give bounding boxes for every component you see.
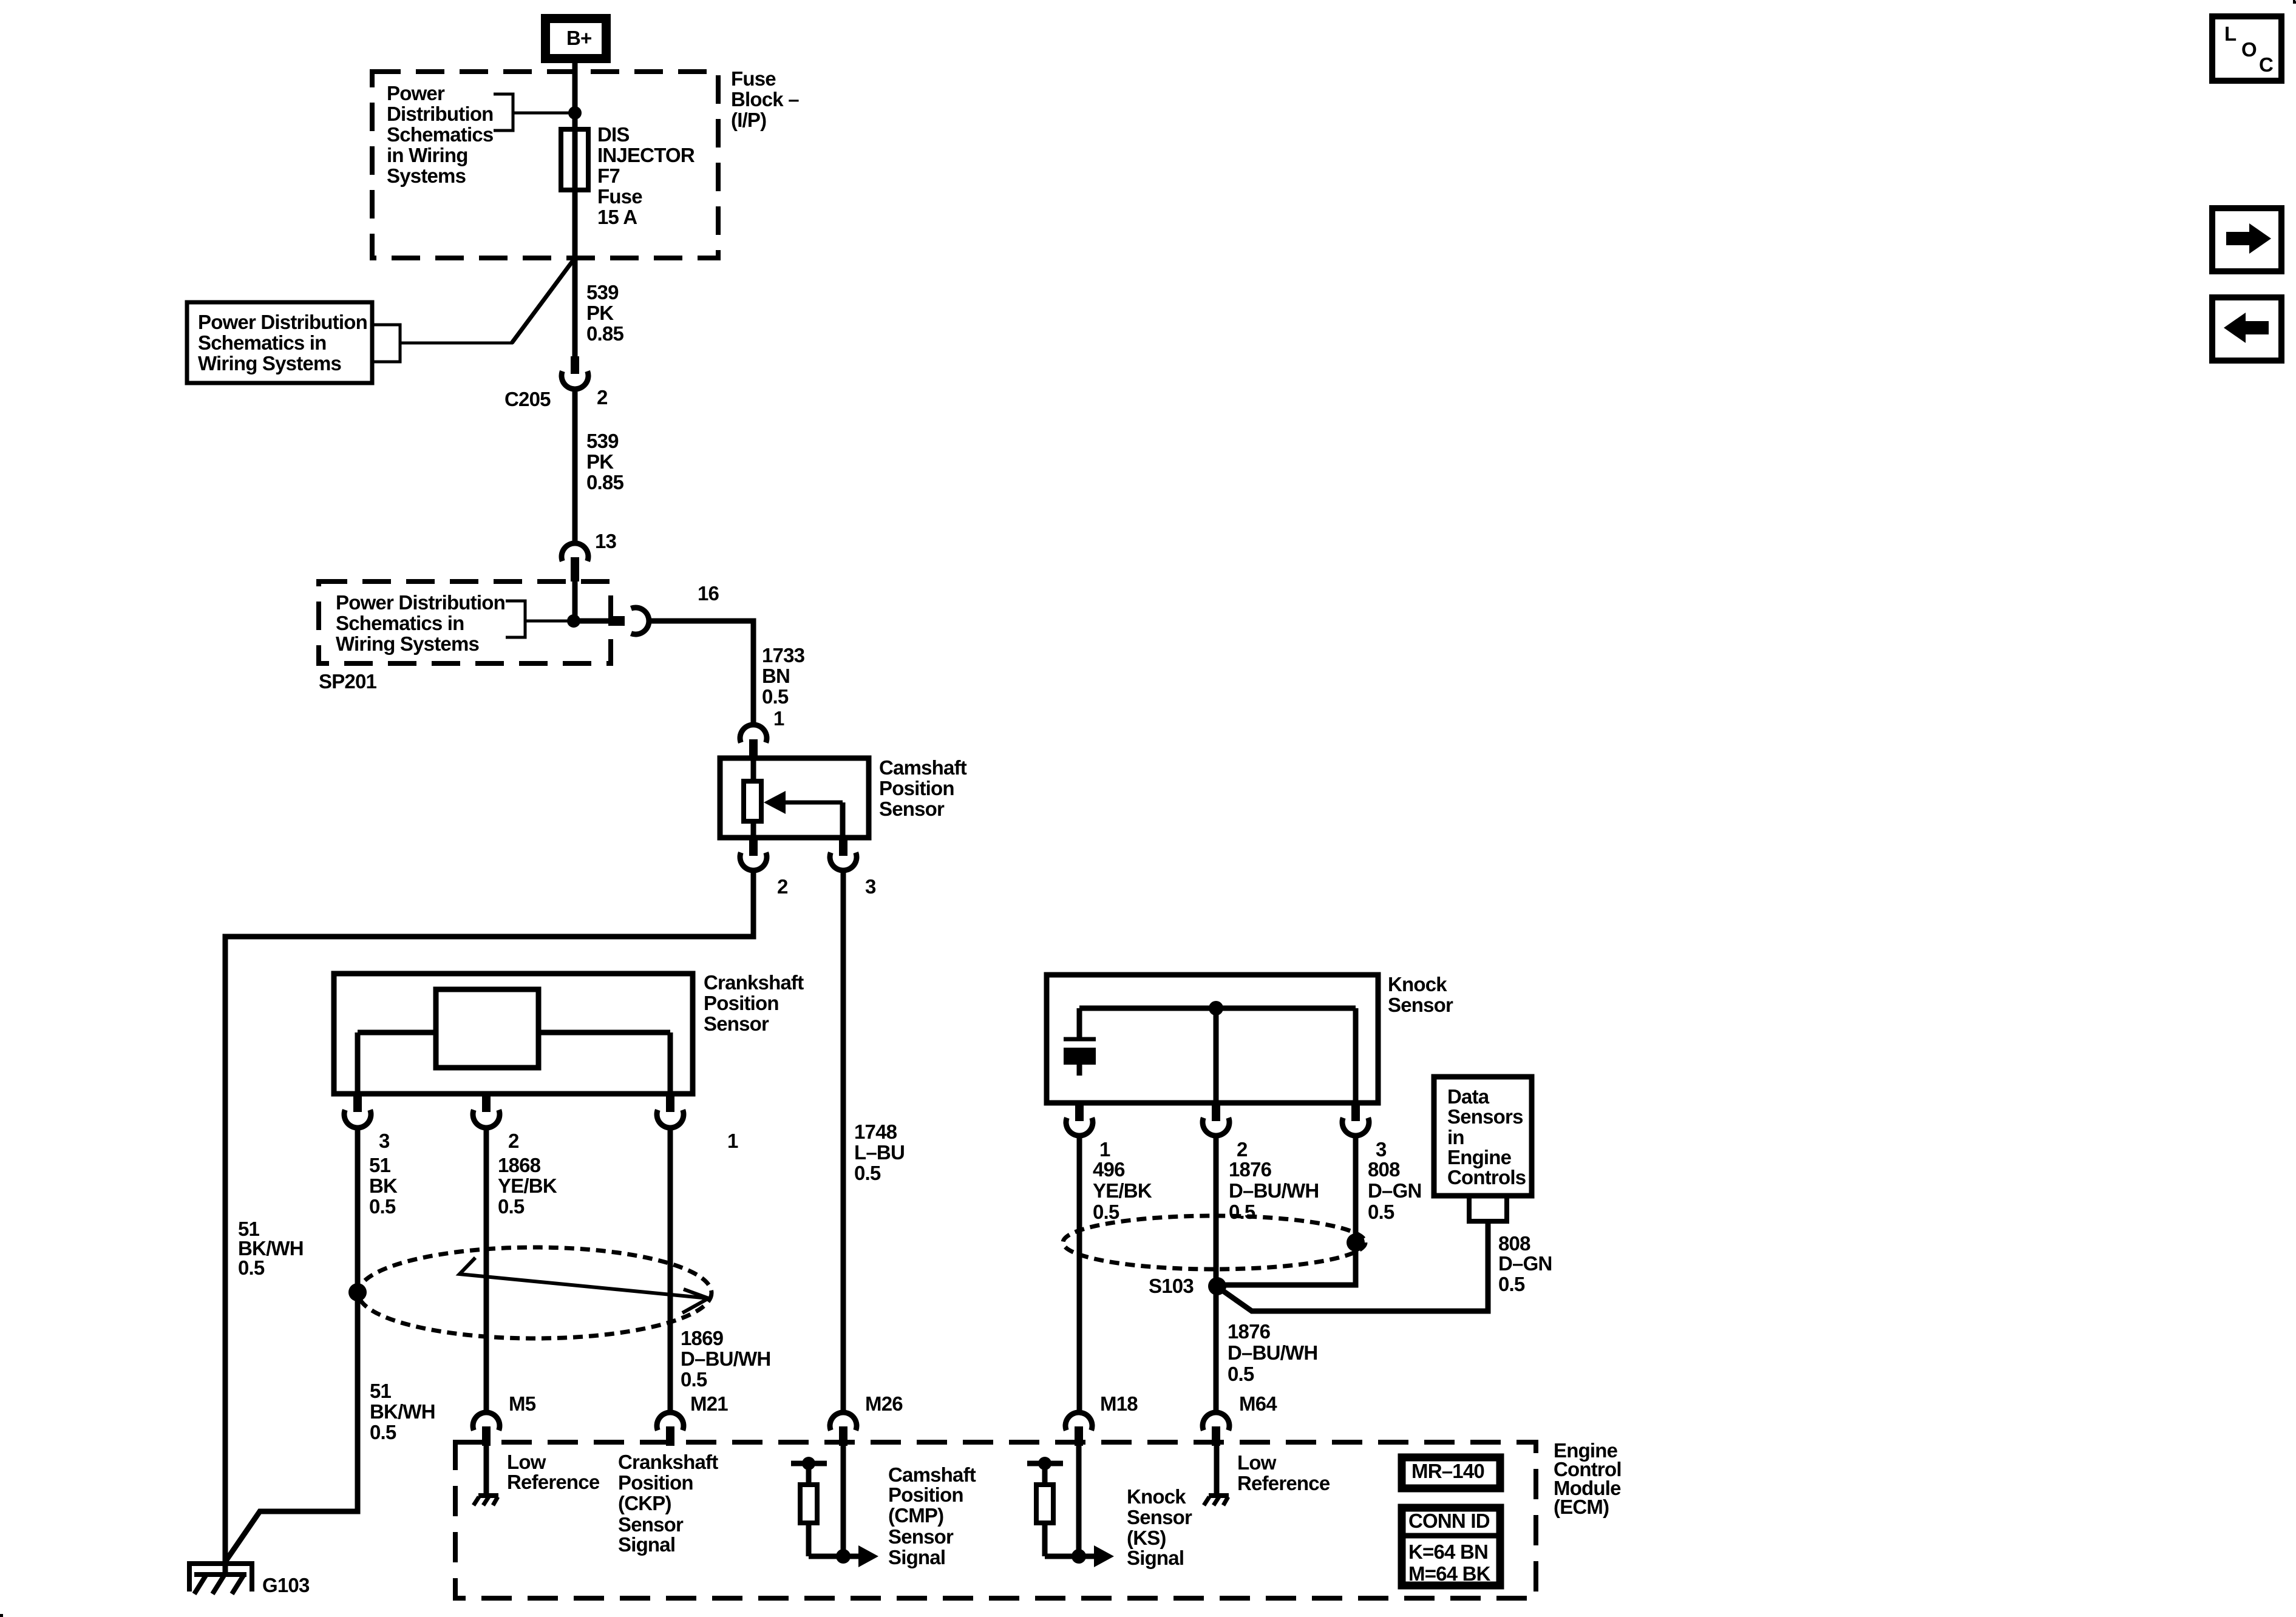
svg-text:Low: Low (1237, 1451, 1277, 1474)
connector 16 out of SP201 (608, 608, 649, 634)
connector 13 into SP201 (562, 543, 588, 581)
svg-text:1: 1 (773, 707, 784, 730)
wire M5 to internal ground (484, 1446, 489, 1496)
wire label 1733 BN 0.5 (762, 644, 805, 708)
ground G103 (189, 1564, 252, 1594)
junction node CMP rail (802, 1457, 815, 1470)
wire label 808 D-GN 0.5 (left) (1368, 1158, 1422, 1223)
svg-text:0.5: 0.5 (1368, 1201, 1394, 1223)
svg-text:Distribution: Distribution (387, 103, 494, 125)
svg-text:B+: B+ (566, 27, 592, 49)
label Camshaft Position Sensor (879, 756, 967, 820)
svg-text:PK: PK (586, 450, 614, 473)
svg-text:M64: M64 (1239, 1392, 1277, 1415)
connector pin 3 camshaft sensor (830, 838, 857, 870)
wire 496 YE/BK knock pin 1 to M18 (1077, 1136, 1082, 1413)
svg-text:496: 496 (1093, 1158, 1125, 1181)
svg-text:0.85: 0.85 (586, 471, 623, 493)
svg-text:Sensor: Sensor (704, 1012, 769, 1035)
KS input pull-up rail (1027, 1461, 1063, 1466)
svg-text:L: L (2224, 22, 2237, 45)
connector pin 3 knock sensor (1342, 1103, 1369, 1136)
bracket inside SP201 (506, 601, 574, 637)
label Power Distribution Schematics in Wiring Systems (fuse block) (387, 82, 494, 187)
wire label 1876 D-BU/WH 0.5 (upper) (1229, 1158, 1319, 1223)
svg-text:1876: 1876 (1229, 1158, 1272, 1181)
svg-text:YE/BK: YE/BK (498, 1175, 557, 1197)
connector M64 at ECM (1203, 1412, 1229, 1446)
junction node CMP signal (836, 1549, 851, 1564)
twisted pair ellipse (knock) (1063, 1216, 1365, 1269)
wire 1869 D-BU/WH crankshaft pin 1 to M21 (668, 1128, 673, 1413)
wire 808 D-GN from data sensors to S103 (1217, 1221, 1488, 1311)
svg-text:Power: Power (387, 82, 445, 104)
svg-text:Signal: Signal (888, 1546, 945, 1568)
resistor CMP input (800, 1463, 817, 1556)
svg-text:Power Distribution: Power Distribution (198, 311, 367, 333)
svg-text:Camshaft: Camshaft (888, 1463, 976, 1486)
svg-text:Schematics in: Schematics in (336, 612, 464, 634)
wire camshaft pin 2 to ground run (225, 870, 753, 1564)
junction node in fuse block (568, 106, 582, 120)
connector pin 2 knock sensor (1203, 1103, 1229, 1136)
svg-text:M26: M26 (865, 1392, 903, 1415)
svg-text:Position: Position (879, 777, 954, 799)
connector pin 1 camshaft sensor (740, 725, 767, 758)
svg-text:S103: S103 (1149, 1275, 1194, 1297)
svg-text:3: 3 (1376, 1138, 1387, 1161)
connector M5 at ECM (473, 1412, 500, 1446)
CMP input pull-up rail (791, 1461, 827, 1466)
label Low Reference (M5) (507, 1451, 600, 1493)
svg-text:16: 16 (698, 582, 719, 605)
svg-text:Position: Position (704, 992, 779, 1014)
svg-text:Schematics in: Schematics in (198, 331, 327, 354)
svg-text:Camshaft: Camshaft (879, 756, 967, 779)
svg-text:G103: G103 (262, 1574, 310, 1596)
wire label 51 BK/WH 0.5 (upper) (238, 1218, 304, 1279)
svg-text:Signal: Signal (618, 1533, 675, 1556)
svg-text:3: 3 (379, 1130, 390, 1152)
svg-text:Wiring Systems: Wiring Systems (336, 632, 479, 655)
svg-text:Position: Position (618, 1471, 693, 1494)
svg-text:Sensor: Sensor (618, 1513, 684, 1536)
svg-text:Systems: Systems (387, 164, 466, 187)
diagonal wire to Power Distribution reference (512, 258, 575, 343)
svg-text:Signal: Signal (1127, 1547, 1184, 1569)
svg-text:51: 51 (369, 1154, 391, 1176)
label Knock Sensor (1388, 973, 1453, 1016)
svg-text:1748: 1748 (854, 1120, 897, 1143)
svg-text:C205: C205 (504, 388, 551, 410)
svg-text:Low: Low (507, 1451, 546, 1473)
connector M21 at ECM (657, 1412, 684, 1446)
svg-text:Data: Data (1447, 1085, 1490, 1108)
label Engine Control Module (ECM) (1554, 1439, 1622, 1518)
connector pin 1 knock sensor (1066, 1103, 1093, 1136)
svg-text:(CKP): (CKP) (618, 1492, 671, 1514)
svg-text:BN: BN (762, 665, 790, 687)
svg-text:Sensor: Sensor (879, 798, 945, 820)
svg-text:0.5: 0.5 (238, 1256, 265, 1279)
connector pin 2 camshaft sensor (740, 838, 767, 870)
svg-text:0.5: 0.5 (1498, 1273, 1525, 1295)
data sensors reference box (1434, 1077, 1532, 1196)
fuse F7 DIS INJECTOR 15 A (561, 129, 588, 190)
page corner mark bottom left (0, 1614, 3, 1617)
svg-text:1876: 1876 (1228, 1320, 1271, 1343)
svg-text:O: O (2241, 38, 2257, 61)
wire label 51 BK 0.5 (369, 1154, 398, 1218)
svg-text:0.85: 0.85 (586, 322, 623, 345)
wire M18 to KS signal node (1076, 1446, 1082, 1556)
svg-text:in Wiring: in Wiring (387, 144, 468, 166)
label Crankshaft Position (CKP) Sensor Signal (618, 1451, 718, 1556)
svg-text:F7: F7 (597, 164, 620, 187)
svg-text:0.5: 0.5 (369, 1195, 396, 1218)
wire label 51 BK/WH 0.5 (lower) (370, 1380, 435, 1443)
svg-text:539: 539 (586, 430, 619, 452)
svg-text:1869: 1869 (681, 1327, 724, 1349)
battery feed B+ (546, 19, 606, 59)
wire resistor to CMP signal node (809, 1554, 843, 1559)
label Knock Sensor (KS) Signal (1127, 1485, 1192, 1569)
svg-text:0.5: 0.5 (1093, 1201, 1119, 1223)
junction node on wire 51 BK (348, 1283, 367, 1301)
svg-text:(KS): (KS) (1127, 1527, 1166, 1549)
resistor KS input (1036, 1463, 1053, 1556)
label Low Reference (M64) (1237, 1451, 1330, 1494)
svg-text:Sensor: Sensor (1127, 1506, 1192, 1528)
splice pack SP201 dashed box (319, 581, 611, 663)
wire camshaft pin 3 to M26 (841, 870, 846, 1413)
svg-text:2: 2 (1237, 1138, 1248, 1161)
svg-text:1868: 1868 (498, 1154, 541, 1176)
svg-text:808: 808 (1368, 1158, 1400, 1181)
crankshaft position sensor box (334, 974, 693, 1094)
svg-text:M=64 BK: M=64 BK (1408, 1562, 1491, 1585)
svg-text:0.5: 0.5 (762, 685, 789, 708)
wire SP201 to pin 16 (574, 619, 608, 624)
ground (low reference M5) (474, 1496, 498, 1505)
svg-text:0.5: 0.5 (854, 1162, 881, 1184)
crankshaft sensor element (358, 989, 670, 1094)
CONN ID table (1402, 1508, 1500, 1585)
junction node SP201 (567, 614, 580, 628)
fuse block dashed box (372, 72, 718, 258)
svg-text:Sensors: Sensors (1447, 1105, 1523, 1128)
page corner mark top right (2294, 0, 2296, 2)
svg-text:D–GN: D–GN (1498, 1252, 1552, 1275)
svg-text:(CMP): (CMP) (888, 1504, 943, 1527)
svg-text:Sensor: Sensor (888, 1525, 954, 1548)
svg-text:51: 51 (370, 1380, 392, 1402)
svg-text:L–BU: L–BU (854, 1141, 905, 1164)
svg-text:Crankshaft: Crankshaft (704, 971, 804, 994)
wire 51 BK crankshaft pin 3 to G103 (225, 1128, 358, 1562)
knock sensor box (1047, 975, 1378, 1103)
svg-text:0.5: 0.5 (681, 1368, 707, 1391)
svg-text:1: 1 (727, 1130, 738, 1152)
connector M18 at ECM (1065, 1412, 1092, 1446)
svg-text:DIS: DIS (597, 123, 630, 146)
svg-text:0.5: 0.5 (498, 1195, 525, 1218)
twisted pair ellipse (crankshaft) (358, 1247, 712, 1338)
svg-text:Fuse: Fuse (597, 185, 642, 208)
knock internal wires to pins (1216, 1008, 1356, 1103)
reference box Power Distribution Schematics in Wiring Systems (187, 302, 372, 383)
label Power Distribution Schematics in Wiring Systems (SP201) (336, 591, 505, 655)
svg-text:Knock: Knock (1388, 973, 1447, 995)
svg-text:YE/BK: YE/BK (1093, 1179, 1152, 1202)
connector C205 pin 2 (562, 356, 588, 389)
wire label 808 D-GN 0.5 (right) (1498, 1232, 1552, 1295)
svg-text:Fuse: Fuse (731, 67, 776, 90)
svg-text:Reference: Reference (1237, 1472, 1330, 1494)
svg-text:INJECTOR: INJECTOR (597, 144, 695, 166)
camshaft sensor arrow (764, 791, 843, 838)
svg-text:1: 1 (1099, 1138, 1110, 1161)
svg-text:Wiring Systems: Wiring Systems (198, 352, 341, 375)
svg-text:13: 13 (595, 530, 617, 552)
svg-text:D–BU/WH: D–BU/WH (681, 1347, 770, 1370)
svg-text:0.5: 0.5 (370, 1421, 396, 1443)
camshaft position sensor box (720, 758, 869, 838)
svg-text:Controls: Controls (1447, 1166, 1526, 1188)
svg-text:C: C (2259, 53, 2273, 76)
svg-text:Knock: Knock (1127, 1485, 1186, 1508)
svg-text:0.5: 0.5 (1229, 1201, 1255, 1223)
svg-text:Power Distribution: Power Distribution (336, 591, 505, 614)
bracket wire to Power Distribution reference (fuse block) (494, 94, 575, 131)
connector pin 2 crankshaft sensor (473, 1094, 500, 1128)
data sensors connector bracket (1469, 1196, 1507, 1221)
svg-text:BK/WH: BK/WH (370, 1400, 435, 1423)
svg-text:PK: PK (586, 302, 614, 324)
junction node KS signal (1072, 1549, 1086, 1564)
svg-text:Block –: Block – (731, 88, 799, 110)
connector pin 3 crankshaft sensor (344, 1094, 371, 1128)
label Camshaft Position (CMP) Sensor Signal (888, 1463, 976, 1568)
svg-text:Crankshaft: Crankshaft (618, 1451, 718, 1473)
svg-text:0.5: 0.5 (1228, 1363, 1254, 1385)
svg-text:2: 2 (597, 386, 608, 408)
svg-text:(I/P): (I/P) (731, 109, 766, 131)
wire M26 to CMP signal node (841, 1446, 846, 1556)
svg-text:SP201: SP201 (319, 670, 377, 693)
svg-text:3: 3 (865, 875, 876, 898)
svg-text:(ECM): (ECM) (1554, 1496, 1609, 1518)
wire label 1876 D-BU/WH 0.5 (lower) (1228, 1320, 1317, 1385)
junction node KS rail (1038, 1457, 1051, 1470)
wire label 1869 D-BU/WH 0.5 (681, 1327, 770, 1391)
twisted pair arrow (crankshaft) (460, 1258, 708, 1313)
wire label 496 YE/BK 0.5 (1093, 1158, 1152, 1223)
junction node knock internal (1209, 1001, 1223, 1015)
knock sensor internal bus (1079, 1006, 1356, 1011)
svg-text:D–BU/WH: D–BU/WH (1228, 1341, 1317, 1364)
svg-text:D–BU/WH: D–BU/WH (1229, 1179, 1319, 1202)
svg-text:Reference: Reference (507, 1471, 600, 1493)
arrow CMP sensor signal (843, 1545, 878, 1567)
engine control module dashed box (455, 1442, 1536, 1598)
label DIS INJECTOR F7 Fuse 15 A (597, 123, 695, 228)
svg-text:BK: BK (369, 1175, 398, 1197)
wire from diagonal to reference bracket (400, 342, 513, 345)
bracket of solid reference box (374, 325, 400, 362)
wire 1868 YE/BK crankshaft pin 2 to M5 (484, 1128, 489, 1413)
wire label 539 PK 0.85 (upper) (586, 281, 623, 345)
wire 1733 BN from pin 16 to camshaft sensor (649, 621, 753, 726)
svg-text:in: in (1447, 1126, 1464, 1148)
wire inside SP201 (572, 581, 578, 621)
svg-text:CONN ID: CONN ID (1408, 1510, 1490, 1532)
wire M64 to internal ground (1214, 1446, 1220, 1496)
svg-text:808: 808 (1498, 1232, 1530, 1255)
svg-text:M5: M5 (509, 1392, 536, 1415)
label Crankshaft Position Sensor (704, 971, 804, 1035)
wire 1876 D-BU/WH knock pin 2 to S103 and M64 (1214, 1136, 1219, 1413)
wire resistor to KS signal node (1045, 1554, 1079, 1559)
MR-140 reference box (1402, 1457, 1500, 1488)
svg-text:M21: M21 (690, 1392, 728, 1415)
svg-text:Engine: Engine (1447, 1146, 1512, 1168)
svg-text:MR–140: MR–140 (1411, 1460, 1484, 1482)
splice S103 (1208, 1277, 1226, 1295)
wire B+ to fuse F7 and C205 (572, 63, 578, 357)
LOC navigation box (2212, 16, 2281, 81)
svg-text:D–GN: D–GN (1368, 1179, 1422, 1202)
forward navigation arrow box (2212, 208, 2281, 271)
knock piezo element (1064, 1008, 1096, 1076)
connector pin 1 crankshaft sensor (657, 1094, 684, 1128)
ground (low reference M64) (1204, 1496, 1229, 1505)
svg-text:K=64 BN: K=64 BN (1408, 1541, 1488, 1563)
svg-text:M18: M18 (1100, 1392, 1138, 1415)
wire 808 D-GN knock pin 3 (1217, 1136, 1356, 1285)
svg-text:539: 539 (586, 281, 619, 303)
connector M26 at ECM (830, 1412, 857, 1446)
label Fuse Block - (I/P) (731, 67, 799, 131)
wire label 1748 L-BU 0.5 (854, 1120, 905, 1184)
svg-text:15 A: 15 A (597, 206, 637, 228)
svg-text:Schematics: Schematics (387, 123, 493, 146)
arrow KS sensor signal (1079, 1545, 1114, 1567)
svg-text:Position: Position (888, 1483, 963, 1506)
wire label 539 PK 0.85 (lower) (586, 430, 623, 493)
junction node on 808 wire (1347, 1233, 1365, 1252)
back navigation arrow box (2212, 297, 2281, 361)
svg-text:Sensor: Sensor (1388, 994, 1453, 1016)
svg-text:2: 2 (777, 875, 788, 898)
svg-text:1733: 1733 (762, 644, 805, 666)
svg-text:2: 2 (508, 1130, 519, 1152)
wire C205 to SP201 (572, 388, 578, 544)
camshaft sensor element (744, 758, 761, 838)
wire label 1868 YE/BK 0.5 (498, 1154, 557, 1218)
